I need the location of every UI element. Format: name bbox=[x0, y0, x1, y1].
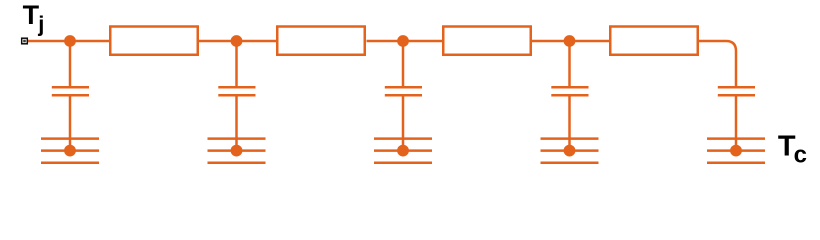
wire : R4 to top-right corner, bends down to C5 bbox=[699, 41, 736, 86]
ground 3 bbox=[374, 139, 432, 163]
node 2 junction dot bbox=[231, 35, 243, 47]
label Tj bbox=[23, 0, 45, 37]
wire : main horizontal bus from Tj terminal to R1 bbox=[28, 40, 109, 43]
svg-text:c: c bbox=[794, 141, 807, 168]
wire : C1 down to ground 1 bbox=[69, 96, 72, 151]
ground 1 junction dot bbox=[64, 145, 76, 157]
svg-text:T: T bbox=[23, 0, 40, 30]
svg-text:j: j bbox=[37, 12, 44, 37]
wire : C5 down to ground 5 bbox=[735, 96, 738, 151]
ground 5 junction dot bbox=[730, 145, 742, 157]
node Tj terminal square bbox=[22, 38, 28, 44]
node 4 junction dot bbox=[564, 35, 576, 47]
capacitor C1 bbox=[52, 87, 89, 95]
wire : R3 to R4 bbox=[532, 40, 609, 43]
node 3 junction dot bbox=[397, 35, 409, 47]
wire : R1 to R2 bbox=[199, 40, 276, 43]
wire : node 3 down to C3 bbox=[402, 41, 405, 86]
ground 2 bbox=[208, 139, 266, 163]
node 1 junction dot bbox=[64, 35, 76, 47]
wire : C3 down to ground 3 bbox=[402, 96, 405, 151]
capacitor C4 bbox=[551, 87, 588, 95]
wire : node 2 down to C2 bbox=[235, 41, 238, 86]
ground 4 junction dot bbox=[564, 145, 576, 157]
ground 3 junction dot bbox=[397, 145, 409, 157]
resistor R1 bbox=[110, 27, 198, 55]
wire : node 1 down to C1 bbox=[69, 41, 72, 86]
wire : node 4 down to C4 bbox=[568, 41, 571, 86]
capacitor C2 bbox=[218, 87, 255, 95]
wire : C4 down to ground 4 bbox=[568, 96, 571, 151]
capacitor C5 bbox=[718, 87, 755, 95]
ground 2 junction dot bbox=[231, 145, 243, 157]
label Tc bbox=[778, 131, 807, 169]
ground 4 bbox=[541, 139, 599, 163]
ground 1 bbox=[41, 139, 99, 163]
capacitor C3 bbox=[385, 87, 422, 95]
resistor R4 bbox=[610, 27, 698, 55]
wire : C2 down to ground 2 bbox=[235, 96, 238, 151]
ground 5 bbox=[707, 139, 765, 163]
resistor R2 bbox=[277, 27, 365, 55]
wire : R2 to R3 bbox=[367, 40, 443, 43]
resistor R3 bbox=[443, 27, 531, 55]
